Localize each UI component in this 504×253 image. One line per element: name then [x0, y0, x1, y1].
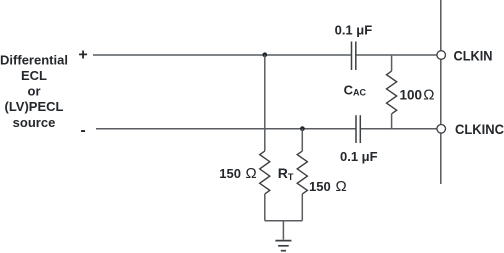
wire: top line from C1 right plate to CLKIN pin	[356, 54, 437, 56]
resistor RT left 150 ohm zigzag	[260, 151, 270, 194]
svg-text:source: source	[13, 115, 56, 130]
svg-text:0.1 μF: 0.1 μF	[340, 149, 378, 164]
svg-text:Ω: Ω	[336, 178, 347, 195]
wire: 100 ohm bottom lead	[391, 114, 393, 129]
svg-text:0.1 μF: 0.1 μF	[335, 22, 373, 37]
capacitor C2 (0.1 uF) bottom plates	[356, 115, 360, 143]
wire: device edge vertical line	[440, 0, 442, 184]
wire: 100 ohm top lead	[391, 55, 393, 71]
source label text	[0, 52, 68, 130]
wire: left RT bottom lead	[264, 194, 266, 221]
svg-text:ECL: ECL	[21, 68, 47, 83]
wire: right RT bottom lead	[301, 194, 303, 221]
svg-text:RT: RT	[278, 165, 294, 182]
svg-text:150: 150	[309, 179, 331, 194]
wire: ground stub	[282, 221, 284, 240]
node: junction dot on top wire	[262, 52, 267, 57]
svg-text:Ω: Ω	[423, 86, 434, 103]
resistor RT right 150 ohm zigzag	[297, 151, 307, 194]
wire: bottom line from C2 right plate to CLKINC pin	[360, 128, 436, 130]
pin CLKINC open circle	[437, 125, 446, 134]
wire: right RT branch vertical	[301, 129, 303, 151]
svg-text:Ω: Ω	[246, 165, 257, 182]
wire: top line from + to C1 left plate	[93, 54, 352, 56]
wire: left RT branch vertical	[264, 55, 266, 151]
svg-text:+: +	[78, 47, 87, 64]
wire: bottom line from - to C2 left plate	[96, 128, 356, 130]
svg-text:CAC: CAC	[344, 83, 367, 98]
ground symbol	[275, 241, 291, 251]
pin CLKIN open circle	[437, 51, 446, 60]
wire: bottom joining horizontal	[265, 220, 303, 222]
capacitor C1 (0.1 uF) top plates	[352, 42, 356, 71]
svg-text:150: 150	[219, 166, 241, 181]
node: junction dot on bottom wire	[300, 126, 305, 131]
svg-text:-: -	[80, 122, 85, 139]
svg-text:(LV)PECL: (LV)PECL	[5, 99, 64, 114]
svg-text:CLKIN: CLKIN	[454, 48, 493, 64]
svg-text:100: 100	[400, 87, 423, 102]
svg-text:CLKINC: CLKINC	[455, 121, 504, 137]
resistor 100 ohm zigzag	[387, 71, 397, 114]
svg-text:or: or	[28, 84, 41, 99]
svg-text:Differential: Differential	[0, 52, 68, 67]
